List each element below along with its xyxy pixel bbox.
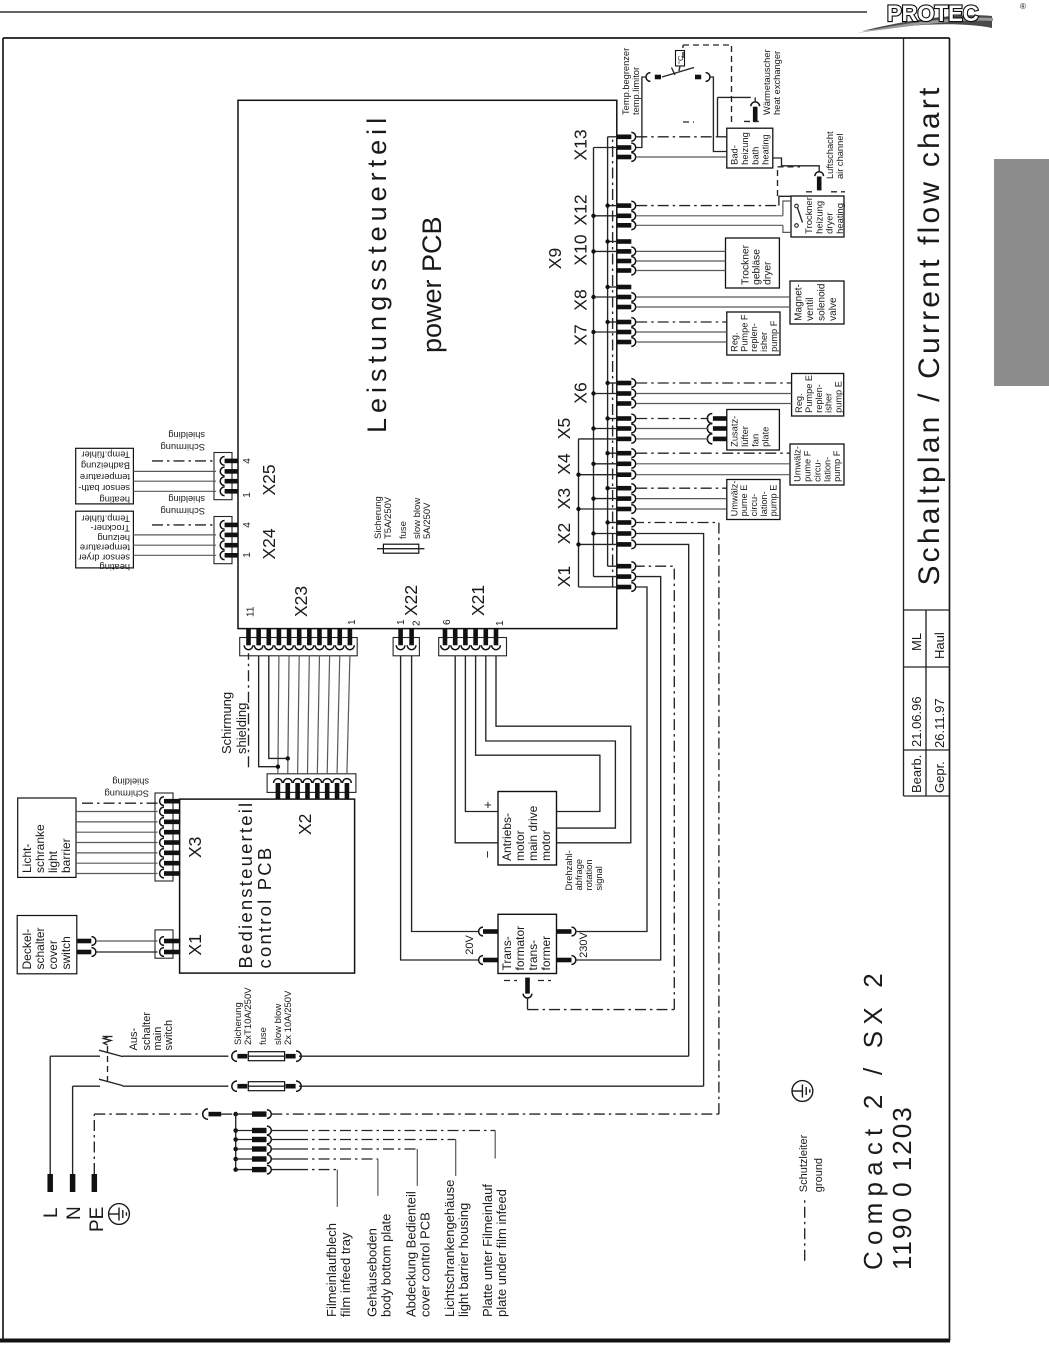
svg-text:X5: X5 bbox=[554, 418, 574, 439]
wire X12.1 PE to dryer heater bbox=[636, 196, 791, 205]
bath heating E1 Badheizung box bbox=[727, 128, 773, 168]
wire PE to distribution bus bbox=[221, 1113, 236, 1115]
main switch S1 pole L bbox=[50, 1050, 228, 1174]
svg-text:X24: X24 bbox=[259, 528, 279, 559]
svg-text:schranke: schranke bbox=[33, 824, 47, 873]
svg-text:X1: X1 bbox=[554, 566, 574, 587]
svg-text:11: 11 bbox=[246, 606, 257, 617]
bus pin3 net inside power PCB bbox=[576, 439, 617, 587]
label X23 bbox=[246, 586, 359, 625]
sensor B1 Temp.fuehler Badheizung box bbox=[76, 448, 134, 504]
transformer T1 box bbox=[498, 914, 557, 973]
svg-text:Filmeinlaufblech: Filmeinlaufblech bbox=[324, 1223, 339, 1317]
main switch S1 pole N bbox=[73, 1079, 229, 1174]
svg-text:solenoid: solenoid bbox=[817, 284, 828, 321]
svg-text:Licht-: Licht- bbox=[20, 844, 34, 873]
svg-text:X22: X22 bbox=[401, 585, 421, 616]
svg-text:air channel: air channel bbox=[835, 134, 845, 179]
svg-text:X2: X2 bbox=[295, 814, 315, 835]
svg-text:X21: X21 bbox=[468, 585, 488, 616]
thermostat inside dryer heater bbox=[795, 204, 803, 227]
svg-text:X10: X10 bbox=[571, 234, 591, 265]
wires X3 to circulation pump E bbox=[636, 488, 727, 509]
fuse F1 T5A/250V bbox=[373, 496, 433, 553]
protective earth legend bbox=[792, 1081, 825, 1261]
svg-text:switch: switch bbox=[59, 936, 73, 969]
svg-text:+: + bbox=[480, 801, 495, 809]
PE branch chassis bond 4 bbox=[233, 1155, 378, 1196]
svg-text:Luftschacht: Luftschacht bbox=[825, 131, 835, 179]
transformer terminals 230V side bbox=[557, 927, 576, 964]
svg-text:pume F: pume F bbox=[803, 450, 813, 482]
wire transformer to X1.3 bbox=[576, 587, 647, 932]
svg-text:temperature: temperature bbox=[80, 543, 130, 553]
svg-text:Temp.begrenzer: Temp.begrenzer bbox=[621, 48, 631, 115]
svg-text:230V: 230V bbox=[578, 931, 590, 957]
svg-text:1190 0 1203: 1190 0 1203 bbox=[887, 1105, 917, 1270]
wire X22.2 to transformer bbox=[412, 656, 479, 932]
PE main branch connector bbox=[233, 1110, 271, 1119]
svg-text:Umwälz-: Umwälz- bbox=[729, 481, 739, 517]
svg-text:1: 1 bbox=[495, 620, 506, 626]
label chassis part 3 bbox=[404, 1191, 433, 1317]
svg-text:replen-: replen- bbox=[749, 323, 759, 352]
svg-text:Schirmung: Schirmung bbox=[219, 692, 234, 754]
svg-text:lüfter: lüfter bbox=[740, 426, 750, 447]
label X21 bbox=[442, 585, 506, 626]
sensor bulb box C bbox=[676, 51, 686, 72]
transformer terminals 20V side bbox=[479, 927, 498, 964]
svg-text:Drehzahl-: Drehzahl- bbox=[564, 850, 574, 890]
wire PE to X2.1 bbox=[271, 523, 719, 1115]
circulation pump E M7 box bbox=[727, 480, 780, 520]
wire X22.1 to transformer bbox=[401, 656, 479, 960]
svg-text:X8: X8 bbox=[571, 289, 591, 310]
svg-text:replen-: replen- bbox=[814, 384, 824, 413]
air channel bond connector bbox=[773, 158, 824, 190]
replenisher pump E M4 box bbox=[792, 374, 844, 417]
svg-text:Wärmetauscher: Wärmetauscher bbox=[762, 49, 772, 115]
svg-text:formator: formator bbox=[513, 926, 527, 971]
svg-text:X23: X23 bbox=[291, 586, 311, 617]
label temp limiter bbox=[621, 48, 641, 115]
svg-text:X12: X12 bbox=[571, 194, 591, 225]
svg-text:Schirmung: Schirmung bbox=[105, 789, 149, 799]
svg-text:Schirmung: Schirmung bbox=[161, 442, 205, 452]
svg-text:Reg.: Reg. bbox=[729, 332, 739, 351]
svg-text:26.11.97: 26.11.97 bbox=[932, 698, 947, 748]
label X22 bbox=[396, 585, 423, 626]
wire N to X2.2 bbox=[636, 534, 704, 1087]
wire L to X2.3 bbox=[636, 544, 689, 1056]
svg-text:Abdeckung Bedienteil: Abdeckung Bedienteil bbox=[404, 1191, 419, 1317]
PE branch chassis bond 5 bbox=[233, 1165, 337, 1207]
shield wire X3.8 bbox=[82, 777, 158, 804]
svg-text:2xT10A/250V: 2xT10A/250V bbox=[243, 987, 254, 1045]
wire X21.5 to motor minus bbox=[455, 656, 498, 843]
terminal PE bbox=[87, 1174, 108, 1232]
svg-text:X4: X4 bbox=[554, 453, 574, 475]
svg-text:2: 2 bbox=[412, 620, 423, 626]
label main switch bbox=[128, 1012, 175, 1051]
svg-text:1: 1 bbox=[242, 492, 253, 498]
svg-text:barrier: barrier bbox=[59, 838, 73, 873]
svg-text:Compact 2 / SX 2: Compact 2 / SX 2 bbox=[858, 967, 888, 1270]
circulation pump F M6 box bbox=[790, 444, 844, 485]
svg-text:®: ® bbox=[1020, 2, 1026, 11]
svg-text:−: − bbox=[480, 851, 495, 859]
wire X21.1 to motor bbox=[496, 656, 631, 843]
svg-text:pume E: pume E bbox=[739, 485, 749, 517]
svg-text:Pumpe F: Pumpe F bbox=[739, 314, 749, 352]
solenoid valve Y1 Magnetventil box bbox=[790, 281, 844, 324]
wires sensor B1 to X25 bbox=[133, 471, 216, 491]
svg-text:cover: cover bbox=[46, 940, 60, 969]
svg-text:pump F: pump F bbox=[769, 320, 779, 352]
svg-text:4: 4 bbox=[242, 458, 253, 464]
label chassis part 4 bbox=[365, 1214, 394, 1317]
svg-text:heizung: heizung bbox=[740, 132, 750, 165]
svg-text:Bediensteuerteil: Bediensteuerteil bbox=[235, 801, 256, 969]
svg-text:rotation: rotation bbox=[584, 859, 594, 890]
connector X22 on power PCB bbox=[393, 629, 419, 656]
svg-text:Schutzleiter: Schutzleiter bbox=[798, 1134, 810, 1192]
svg-text:X7: X7 bbox=[571, 324, 591, 345]
svg-text:2x 10A/250V: 2x 10A/250V bbox=[283, 990, 294, 1045]
connector X1 on control PCB bbox=[155, 930, 180, 958]
svg-text:Umwälz-: Umwälz- bbox=[793, 446, 803, 482]
wire X12.2 to dryer heater bbox=[636, 201, 791, 216]
wire X21.4 to motor plus bbox=[465, 656, 498, 812]
wire X13.2 to thermostat bbox=[636, 77, 646, 148]
grey index tab bbox=[994, 159, 1049, 386]
svg-text:Leistungssteuerteil: Leistungssteuerteil bbox=[362, 113, 392, 433]
dryer heater E2 Trocknerheizung box bbox=[791, 196, 845, 237]
svg-text:Trans-: Trans- bbox=[500, 936, 514, 970]
svg-text:fan: fan bbox=[750, 434, 760, 447]
wire X13.3 to bath heating bbox=[636, 156, 727, 158]
connector X21 on power PCB bbox=[439, 629, 507, 656]
wires X23 to control X2 bbox=[259, 656, 350, 774]
svg-text:T5A/250V: T5A/250V bbox=[383, 496, 394, 539]
svg-text:pump E: pump E bbox=[769, 485, 779, 517]
PE branch chassis bond 3 bbox=[233, 1145, 417, 1186]
svg-text:plate under film infeed: plate under film infeed bbox=[494, 1189, 509, 1317]
label chassis part 5 bbox=[324, 1223, 353, 1317]
heat exchanger bond connector bbox=[744, 97, 760, 122]
light barrier B3 Lichtschranke box bbox=[18, 798, 76, 877]
svg-text:Schaltplan / Current flow char: Schaltplan / Current flow chart bbox=[913, 84, 946, 585]
bus pin1 net inside power PCB bbox=[605, 137, 617, 566]
svg-text:Bearb.: Bearb. bbox=[909, 755, 924, 793]
sensor B2 Temp.fuehler Trocknerheizung box bbox=[76, 511, 134, 572]
wires sensor B2 to X24 bbox=[133, 535, 216, 555]
wire X21.2 to motor bbox=[486, 656, 616, 828]
svg-text:sensor dryer: sensor dryer bbox=[78, 552, 130, 562]
svg-text:Aus-: Aus- bbox=[128, 1028, 140, 1051]
dryer fan M2 Trocknergeblaese box bbox=[726, 238, 780, 288]
svg-text:Schirmung: Schirmung bbox=[161, 506, 205, 516]
svg-text:trans-: trans- bbox=[526, 940, 540, 971]
svg-text:gebläse: gebläse bbox=[752, 249, 763, 285]
svg-text:Badheizung: Badheizung bbox=[81, 461, 130, 471]
auxiliary fan M5 Zusatzluefter box bbox=[727, 410, 780, 451]
wires X7 to pump F bbox=[636, 322, 727, 342]
bus PE dash-dot inside power PCB bbox=[612, 137, 614, 587]
svg-text:6: 6 bbox=[442, 619, 453, 625]
svg-text:shielding: shielding bbox=[112, 777, 149, 787]
svg-text:Bad-: Bad- bbox=[730, 145, 740, 165]
wires X9 to dryer fan bbox=[636, 251, 725, 270]
svg-text:pump F: pump F bbox=[832, 450, 842, 482]
PE branch chassis bond 1 bbox=[233, 1126, 495, 1158]
svg-text:Antriebs-: Antriebs- bbox=[500, 813, 514, 861]
wire X21.3 to motor bbox=[476, 656, 600, 812]
svg-text:former: former bbox=[539, 936, 553, 971]
connector X23 on power PCB bbox=[240, 629, 358, 656]
svg-text:Lichtschrankengehäuse: Lichtschrankengehäuse bbox=[442, 1180, 457, 1317]
wire PE transformer to X1.1 bbox=[528, 566, 675, 1009]
svg-text:Gehäuseboden: Gehäuseboden bbox=[365, 1228, 380, 1317]
connector X2 on control PCB bbox=[267, 774, 356, 799]
svg-text:heat exchanger: heat exchanger bbox=[772, 51, 782, 115]
svg-text:isher: isher bbox=[824, 393, 834, 413]
label chassis part 1 bbox=[480, 1184, 509, 1317]
svg-text:lation-: lation- bbox=[759, 491, 769, 516]
svg-text:heating: heating bbox=[761, 134, 771, 165]
wire X12.3 to dryer heater bbox=[636, 225, 791, 232]
connector pairs to auxiliary fan bbox=[707, 414, 727, 444]
svg-text:lation-: lation- bbox=[822, 457, 832, 482]
svg-text:ML: ML bbox=[909, 633, 924, 651]
svg-text:isher: isher bbox=[759, 332, 769, 352]
svg-text:circu-: circu- bbox=[812, 459, 822, 481]
svg-text:Deckel-: Deckel- bbox=[20, 929, 34, 970]
svg-text:X3: X3 bbox=[554, 488, 574, 509]
wires cover switch to control X1 bbox=[96, 941, 158, 952]
label Luftschacht air channel bbox=[825, 131, 845, 179]
svg-text:Haul: Haul bbox=[932, 632, 947, 659]
svg-text:X2: X2 bbox=[554, 523, 574, 544]
svg-text:Platte unter Filmeinlauf: Platte unter Filmeinlauf bbox=[480, 1184, 495, 1317]
wires X5 to auxiliary fan bbox=[636, 419, 708, 439]
labels X1-X13 bbox=[545, 129, 591, 587]
svg-text:4: 4 bbox=[242, 522, 253, 528]
svg-text:motor: motor bbox=[539, 830, 553, 861]
label X24 bbox=[242, 522, 279, 560]
svg-text:PROTEC: PROTEC bbox=[887, 1, 979, 26]
wire transformer to X1.2 bbox=[576, 577, 661, 960]
svg-text:N: N bbox=[64, 1206, 85, 1220]
svg-text:fuse: fuse bbox=[258, 1027, 269, 1045]
svg-text:circu-: circu- bbox=[749, 494, 759, 516]
svg-text:X1: X1 bbox=[185, 934, 205, 955]
svg-text:schalter: schalter bbox=[33, 927, 47, 969]
svg-text:1: 1 bbox=[347, 619, 358, 625]
switch linkage bbox=[103, 1037, 113, 1083]
svg-text:1: 1 bbox=[242, 552, 253, 558]
svg-text:abfrage: abfrage bbox=[574, 859, 584, 891]
svg-text:power PCB: power PCB bbox=[417, 216, 447, 353]
connector X3 on control PCB bbox=[155, 793, 180, 881]
svg-text:Gepr.: Gepr. bbox=[932, 761, 947, 793]
fuse F3 mains N bbox=[232, 1081, 704, 1091]
svg-text:Trockner: Trockner bbox=[740, 244, 751, 284]
svg-text:signal: signal bbox=[594, 866, 604, 890]
svg-text:shielding: shielding bbox=[168, 494, 205, 504]
wires light barrier to X3 bbox=[76, 812, 158, 874]
bus pin2 net inside power PCB bbox=[591, 148, 617, 577]
svg-text:21.06.96: 21.06.96 bbox=[909, 696, 924, 747]
svg-text:main drive: main drive bbox=[526, 805, 540, 861]
replenisher pump F M3 box bbox=[727, 312, 780, 355]
connector pair on PE riser bbox=[203, 1109, 221, 1119]
label mains fuses bbox=[233, 987, 294, 1045]
svg-text:Temp.fühler: Temp.fühler bbox=[81, 450, 130, 460]
label X25 bbox=[242, 458, 279, 498]
svg-text:Magnet-: Magnet- bbox=[793, 284, 804, 321]
wires X4 to circulation pump F bbox=[636, 453, 790, 475]
svg-text:film infeed tray: film infeed tray bbox=[338, 1232, 353, 1317]
control PCB U2 Bediensteuerteil box bbox=[180, 799, 355, 973]
label Drehzahl rotation signal bbox=[564, 850, 604, 890]
PE branch chassis bond 2 bbox=[233, 1135, 455, 1176]
drawing number text bbox=[858, 967, 917, 1270]
svg-text:switch: switch bbox=[163, 1020, 175, 1051]
thermostat S3 temp limiter bbox=[646, 68, 710, 82]
wire thermostat to bath heating bbox=[710, 77, 727, 152]
svg-text:X6: X6 bbox=[571, 382, 591, 403]
svg-text:X25: X25 bbox=[259, 464, 279, 495]
shield wire X23.11 bbox=[219, 653, 249, 767]
label heat exchanger bbox=[762, 49, 782, 115]
svg-text:5A/250V: 5A/250V bbox=[422, 502, 433, 539]
svg-text:shielding: shielding bbox=[168, 430, 205, 440]
wires X8 to solenoid valve bbox=[636, 297, 790, 307]
svg-text:Temp.fühler: Temp.fühler bbox=[81, 514, 130, 524]
svg-text:dryer: dryer bbox=[763, 261, 774, 285]
svg-text:fuse: fuse bbox=[398, 521, 409, 539]
transformer PE terminal bbox=[504, 978, 551, 1010]
svg-text:shielding: shielding bbox=[234, 703, 249, 754]
svg-text:control PCB: control PCB bbox=[254, 846, 275, 969]
title block strip bbox=[904, 38, 950, 796]
terminals cover switch bbox=[77, 937, 96, 957]
svg-text:PE: PE bbox=[87, 1207, 108, 1232]
wire PE riser bbox=[94, 1114, 199, 1174]
svg-text:Reg.: Reg. bbox=[794, 393, 804, 412]
svg-text:ventil: ventil bbox=[805, 297, 816, 320]
air channel duct dashed outline bbox=[778, 167, 846, 196]
cover switch S2 Deckelschalter box bbox=[17, 916, 77, 974]
PE distribution bus bbox=[235, 1114, 237, 1168]
temp limiter dashed enclosure bbox=[683, 45, 732, 122]
label chassis part 2 bbox=[442, 1180, 471, 1317]
svg-text:heating: heating bbox=[99, 494, 130, 504]
svg-text:20V: 20V bbox=[464, 935, 476, 955]
svg-text:X9: X9 bbox=[545, 248, 565, 269]
power PCB U1 Leistungssteuerteil box bbox=[238, 100, 617, 628]
svg-text:pump E: pump E bbox=[833, 381, 843, 413]
svg-text:sensor bath-: sensor bath- bbox=[78, 483, 130, 493]
svg-text:body bottom plate: body bottom plate bbox=[379, 1214, 394, 1317]
svg-text:ground: ground bbox=[813, 1158, 825, 1192]
svg-text:X3: X3 bbox=[185, 837, 205, 858]
svg-text:temp.limitor: temp.limitor bbox=[631, 67, 641, 115]
terminal N bbox=[64, 1174, 85, 1220]
fuse F2 mains L bbox=[232, 1051, 689, 1061]
shield wire X24.4 bbox=[152, 494, 216, 525]
svg-text:motor: motor bbox=[513, 830, 527, 861]
svg-text:valve: valve bbox=[828, 297, 839, 321]
svg-text:Trockner-: Trockner- bbox=[91, 523, 130, 533]
svg-text:Zusatz-: Zusatz- bbox=[730, 416, 740, 447]
wires X6 to pump E bbox=[636, 383, 791, 404]
svg-text:temperature: temperature bbox=[80, 472, 130, 482]
svg-text:cover control PCB: cover control PCB bbox=[418, 1212, 433, 1317]
PROTEC logo bbox=[856, 0, 1031, 36]
svg-text:Pumpe E: Pumpe E bbox=[804, 375, 814, 413]
svg-text:heating: heating bbox=[834, 203, 845, 234]
connector X25 on power PCB bbox=[214, 453, 238, 500]
wire X13.1 PE to enclosure and bath heating bbox=[636, 97, 751, 136]
terminal L bbox=[41, 1174, 62, 1218]
svg-text:plate: plate bbox=[761, 427, 771, 447]
svg-text:L: L bbox=[41, 1207, 62, 1218]
shield wire X25.4 bbox=[152, 430, 216, 461]
svg-text:light: light bbox=[46, 850, 60, 873]
connector X24 on power PCB bbox=[214, 517, 238, 564]
svg-text:heizung: heizung bbox=[97, 533, 130, 543]
svg-text:X13: X13 bbox=[571, 129, 591, 160]
svg-text:heating: heating bbox=[99, 562, 130, 572]
connector pin row X1-X13 on power PCB bottom edge bbox=[617, 132, 636, 591]
svg-text:1: 1 bbox=[396, 619, 407, 625]
svg-text:light barrier housing: light barrier housing bbox=[456, 1203, 471, 1317]
ground symbol at PE terminal bbox=[109, 1204, 130, 1225]
svg-text:bath: bath bbox=[750, 147, 760, 165]
motor M1 Antriebsmotor box bbox=[498, 792, 557, 866]
